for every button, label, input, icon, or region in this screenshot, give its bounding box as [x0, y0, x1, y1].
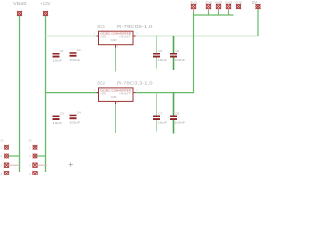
svg-text:10uF: 10uF	[158, 58, 168, 62]
supply +5V	[256, 4, 261, 9]
origin cross marker	[69, 163, 73, 167]
svg-text:X2: X2	[29, 139, 33, 143]
capacitor C1	[53, 49, 64, 63]
net DC1 VIN	[46, 35, 98, 37]
capacitor C4	[70, 111, 81, 125]
net VBATT to X1	[9, 155, 20, 157]
svg-text:C4: C4	[77, 111, 81, 115]
capacitor C3	[53, 111, 64, 125]
svg-text:+VOUT: +VOUT	[119, 91, 131, 95]
capacitor C2	[70, 48, 81, 62]
svg-text:GND: GND	[111, 38, 117, 42]
supply +12V	[43, 11, 48, 16]
connector X2 pin2	[33, 154, 38, 159]
connector X1 pin4	[4, 172, 8, 176]
svg-text:C1: C1	[60, 49, 64, 53]
svg-text:10uF: 10uF	[53, 59, 63, 63]
svg-text:GND: GND	[235, 1, 242, 5]
connector X1 pin2	[4, 154, 9, 159]
svg-text:100nF: 100nF	[175, 58, 186, 62]
net 12V to X2	[37, 155, 45, 157]
svg-text:DC2: DC2	[98, 81, 106, 86]
svg-text:GND: GND	[205, 1, 212, 5]
svg-text:R-78C05-1.0: R-78C05-1.0	[117, 24, 153, 29]
supply GND knot	[236, 4, 241, 9]
net DC2 VIN	[46, 92, 99, 94]
svg-text:X1: X1	[1, 139, 5, 143]
svg-text:R-78C3.3-1.0: R-78C3.3-1.0	[117, 81, 153, 86]
svg-text:5V: 5V	[252, 0, 257, 5]
svg-text:C6: C6	[175, 49, 179, 53]
stub JP1 pin3	[218, 9, 220, 12]
net 5V (DC1 VOUT)	[136, 35, 259, 37]
svg-text:10uF: 10uF	[53, 121, 63, 125]
connector X1 pin1	[4, 145, 9, 150]
wire 12V rail	[45, 16, 47, 172]
wire DC1 GND	[115, 48, 117, 72]
capacitor C8	[170, 93, 185, 134]
capacitor C6	[170, 36, 185, 70]
svg-text:GND: GND	[215, 1, 222, 5]
wire VBATT rail	[19, 16, 21, 172]
stub X2 pin3	[37, 164, 47, 166]
svg-text:3V3: 3V3	[190, 1, 198, 5]
svg-text:DC1: DC1	[98, 24, 106, 29]
connector X1 pin3	[4, 163, 8, 167]
capacitor C5	[153, 36, 167, 69]
stub JP1 pin2	[208, 9, 210, 12]
connector X2 pin1	[33, 145, 38, 150]
pin header JP1 pin3	[216, 4, 220, 8]
svg-text:+VIN: +VIN	[100, 91, 106, 95]
svg-text:+12V: +12V	[40, 1, 51, 6]
svg-text:+VOUT: +VOUT	[119, 35, 131, 39]
connector X2 pin3	[33, 163, 37, 167]
pin header JP1 pin4	[226, 4, 230, 8]
svg-text:+VIN: +VIN	[100, 35, 106, 39]
svg-text:GND: GND	[111, 95, 117, 99]
svg-text:C8: C8	[175, 111, 179, 115]
svg-text:C7: C7	[158, 111, 162, 115]
capacitor C7	[153, 93, 167, 132]
stub JP1 pin4	[228, 9, 230, 12]
pin header JP1 pin2	[206, 4, 210, 8]
wire DC2 GND	[115, 104, 117, 133]
wire 5V to supply	[257, 9, 259, 36]
wire header bus	[194, 14, 234, 16]
connector X2 pin4	[33, 172, 37, 176]
svg-text:GND: GND	[225, 1, 232, 5]
svg-text:100nF: 100nF	[175, 120, 186, 124]
wire 3V3 drop	[136, 15, 194, 93]
svg-text:10uF: 10uF	[158, 120, 168, 124]
svg-text:C3: C3	[60, 111, 64, 115]
dc-dc converter DC2	[97, 88, 136, 104]
svg-text:100nF: 100nF	[70, 120, 81, 124]
svg-text:C2: C2	[77, 48, 81, 52]
svg-text:VBatt: VBatt	[13, 1, 28, 6]
stub X1 pin3	[9, 164, 20, 166]
svg-text:C5: C5	[158, 49, 162, 53]
svg-text:100nF: 100nF	[70, 58, 81, 62]
dc-dc converter DC1	[97, 31, 136, 47]
pin header JP1 pin1	[191, 4, 195, 8]
stub JP1 pin1	[193, 9, 195, 12]
supply VBATT	[17, 11, 22, 16]
